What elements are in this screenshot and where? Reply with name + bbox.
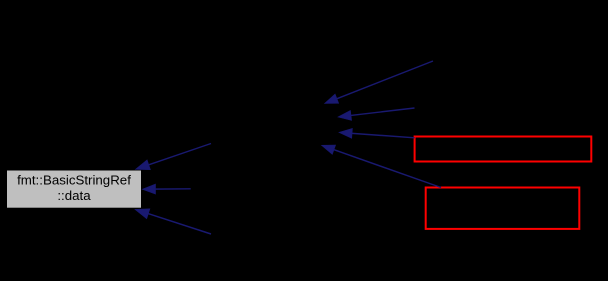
node R2 (red bordered, hidden black label) (426, 188, 580, 229)
edge from hidden node5 to node1 (338, 108, 415, 120)
svg-text:fmt::BasicStringRef: fmt::BasicStringRef (17, 172, 131, 187)
svg-text:::data: ::data (57, 188, 91, 203)
edge from hidden caller node1 to data (top) (136, 144, 212, 170)
edge from red node R1 to node1 (339, 128, 415, 138)
node fmt::BasicStringRef::data (current node, grey) (7, 170, 142, 208)
edge from hidden node4 to node1 (325, 61, 433, 104)
edge from red node R2 to node1 (322, 145, 442, 188)
node R1 (red bordered, hidden black label) (415, 137, 592, 162)
edge from hidden caller node3 to data (bottom) (135, 209, 211, 234)
edge from hidden caller node2 to data (middle) (142, 184, 190, 194)
